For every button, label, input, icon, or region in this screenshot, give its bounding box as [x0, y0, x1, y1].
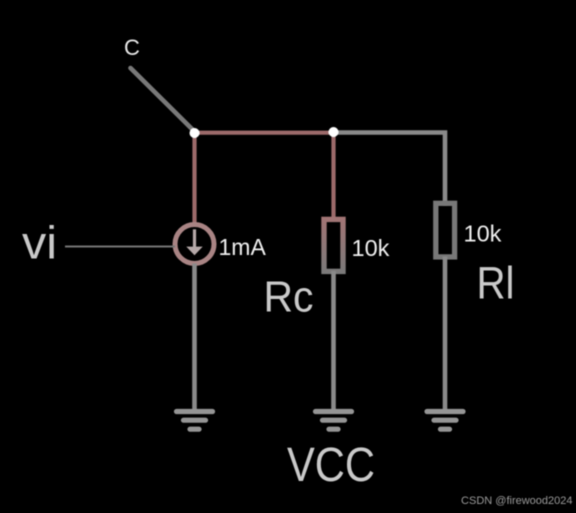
svg-text:10k: 10k	[464, 221, 502, 247]
svg-text:CSDN @firewood2024: CSDN @firewood2024	[461, 495, 572, 507]
svg-text:VCC: VCC	[287, 438, 375, 492]
svg-text:Rl: Rl	[477, 258, 515, 309]
svg-text:vi: vi	[22, 217, 57, 269]
svg-text:C: C	[124, 35, 140, 60]
svg-text:10k: 10k	[352, 235, 390, 261]
svg-text:1mA: 1mA	[219, 234, 267, 260]
svg-text:Rc: Rc	[264, 273, 314, 322]
